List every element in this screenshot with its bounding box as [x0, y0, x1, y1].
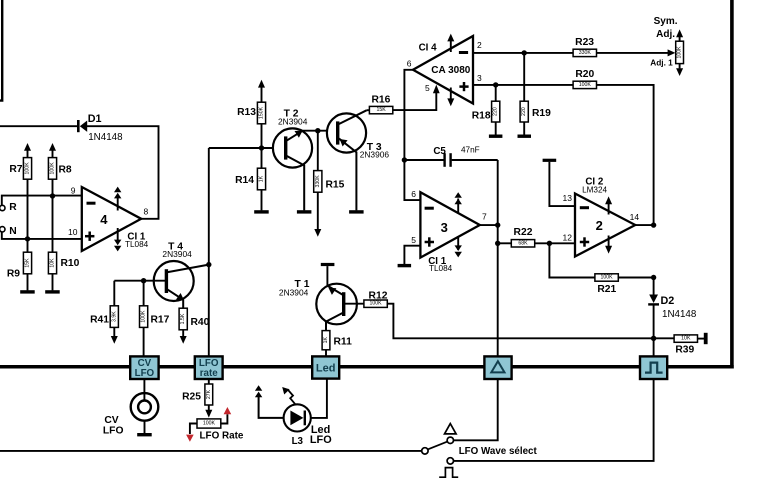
svg-text:LFO Rate: LFO Rate	[200, 430, 244, 441]
wire pot right to red arrow	[221, 414, 228, 423]
wire R40 down arrow	[182, 330, 184, 337]
svg-text:R9: R9	[7, 268, 20, 279]
op-amp U4 CI1 TL084 unit 4	[82, 187, 141, 251]
svg-text:13: 13	[563, 193, 573, 203]
svg-text:R7: R7	[9, 164, 22, 175]
svg-text:7: 7	[482, 212, 487, 222]
wire R10 to ground	[52, 274, 54, 291]
wire triangle box to switch top contact	[454, 379, 498, 440]
svg-text:2N3906: 2N3906	[360, 150, 390, 160]
wire Led box down to LED	[308, 379, 327, 418]
node junction R13/R14/base wire	[259, 145, 264, 150]
ground T3 emitter	[349, 210, 364, 213]
resistor R10	[48, 252, 56, 274]
wire thick LFO bus rail	[0, 365, 734, 369]
resistor R16	[367, 109, 370, 111]
node N input terminal	[0, 227, 5, 232]
triangle symbol above contact	[445, 424, 457, 434]
svg-text:R10: R10	[61, 258, 80, 269]
resistor R18	[495, 85, 497, 101]
svg-text:R25: R25	[182, 392, 201, 403]
power arrows op-amp U3	[457, 199, 459, 214]
wire R7 column down to N wire	[27, 179, 29, 252]
svg-text:R16: R16	[371, 95, 390, 106]
svg-text:R19: R19	[532, 108, 551, 119]
wire pin 2 rail	[473, 52, 573, 54]
svg-text:R: R	[9, 202, 17, 213]
ground CV jack	[137, 433, 152, 436]
square wave symbol below contact	[439, 468, 458, 478]
node junction R17 top	[141, 278, 146, 283]
node junction T2/T3/R15	[315, 128, 320, 133]
wire R21 to D2 column	[618, 277, 654, 279]
svg-text:330K: 330K	[315, 175, 321, 188]
svg-text:9: 9	[71, 185, 76, 195]
wire R17 to CV LFO box	[143, 327, 145, 356]
svg-text:8: 8	[144, 207, 149, 217]
resistor R9	[23, 252, 31, 274]
svg-text:6: 6	[407, 59, 412, 69]
node junction pin3/R18	[493, 82, 498, 87]
node square contact	[447, 458, 453, 464]
resistor R20	[573, 81, 596, 88]
wire R18 ground	[495, 122, 497, 135]
node junction D2/R39/square wire	[651, 336, 656, 341]
box triangle wave output	[484, 356, 511, 379]
svg-text:Led: Led	[316, 363, 336, 375]
svg-text:27K: 27K	[206, 389, 212, 399]
wire square contact to square box	[454, 379, 654, 461]
wire N terminal to op-amp pin 10	[2, 232, 82, 239]
wire jack to ground	[144, 421, 146, 434]
svg-text:1N4148: 1N4148	[88, 132, 123, 143]
ground R9	[20, 290, 35, 293]
resistor R41	[113, 281, 115, 306]
resistor R23	[573, 49, 596, 56]
resistor R14	[261, 148, 263, 168]
node triangle contact	[447, 437, 453, 443]
ground op3 pin 5	[398, 264, 412, 267]
svg-text:R21: R21	[597, 284, 616, 295]
svg-text:N: N	[9, 226, 16, 237]
power arrows CA3080	[450, 40, 452, 52]
node junction R7/N	[25, 236, 30, 241]
resistor R12	[344, 303, 365, 305]
resistor R17	[143, 281, 145, 306]
wire D2 to R39 junction	[653, 305, 655, 356]
svg-text:R17: R17	[151, 315, 170, 326]
node junction R21/D2	[651, 275, 656, 280]
node junction pin2/R19	[522, 50, 527, 55]
transistor T3 2N3906	[327, 113, 366, 152]
svg-text:3: 3	[477, 73, 482, 83]
wire R23 to Sym pot with wiper arrow	[597, 52, 669, 54]
svg-text:15K: 15K	[376, 107, 386, 113]
wire R15 down arrow	[317, 192, 319, 229]
svg-text:100K: 100K	[579, 82, 592, 88]
svg-text:100K: 100K	[677, 46, 683, 59]
node junction T4 collector	[206, 262, 211, 267]
led L3	[284, 404, 311, 431]
svg-text:R41: R41	[90, 315, 109, 326]
wire T4 base rail	[114, 280, 166, 282]
ground T2 emitter	[297, 210, 312, 213]
svg-text:R13: R13	[237, 107, 256, 118]
op-amp U2 CI2 LM324 unit 2	[575, 194, 635, 257]
wire op3 pin5 to ground	[404, 246, 420, 264]
wire R16 to CA3080 pin 5	[393, 92, 437, 111]
resistor R11	[322, 331, 330, 350]
wire bar to T1 collector	[326, 266, 328, 286]
svg-text:3: 3	[441, 220, 448, 235]
wire R terminal to op-amp pin 9	[2, 196, 82, 206]
transistor T1 2N3904	[316, 284, 357, 325]
box CV LFO	[130, 356, 158, 379]
wire CV LFO box to jack	[143, 379, 145, 401]
svg-text:1K: 1K	[259, 175, 265, 182]
svg-text:1.5K: 1.5K	[180, 313, 186, 324]
svg-text:2: 2	[477, 40, 482, 50]
ground R14	[254, 210, 269, 213]
resistor R8	[52, 149, 54, 158]
svg-text:10K: 10K	[50, 258, 56, 268]
rail bar above T1	[321, 263, 335, 266]
wire Sym pot bottom arrow	[679, 64, 681, 69]
wire pot left to red arrow	[190, 424, 197, 435]
svg-text:R20: R20	[575, 69, 594, 80]
wire R9 to ground	[27, 274, 29, 291]
wire op3 output to column	[480, 224, 498, 226]
wire R12 to bottom rail to D2 junction	[387, 304, 654, 339]
resistor R13	[261, 86, 263, 102]
svg-text:LFO: LFO	[135, 368, 155, 379]
transistor T4 2N3904	[154, 261, 194, 301]
svg-text:14: 14	[630, 212, 640, 222]
node junction R22 left	[495, 241, 500, 246]
svg-text:10: 10	[68, 227, 78, 237]
resistor R39	[654, 337, 674, 339]
wire R41 down arrow	[113, 327, 115, 336]
svg-text:R39: R39	[675, 344, 694, 355]
wire op3 output column x497	[497, 160, 499, 356]
potentiometer Sym Adj 100K	[676, 41, 684, 63]
svg-text:220: 220	[521, 107, 527, 116]
svg-text:5: 5	[411, 235, 416, 245]
svg-text:47nF: 47nF	[461, 146, 480, 155]
svg-text:Sym.: Sym.	[654, 16, 678, 27]
node junction op2 out/feedback	[651, 222, 656, 227]
svg-text:R18: R18	[472, 111, 491, 122]
svg-text:2N3904: 2N3904	[279, 287, 309, 297]
svg-text:LFO Wave sélect: LFO Wave sélect	[459, 446, 538, 457]
svg-text:2: 2	[596, 218, 603, 233]
led light arrows	[255, 385, 262, 391]
svg-text:CV: CV	[104, 415, 118, 426]
svg-text:2N3904: 2N3904	[278, 116, 308, 126]
jack CV LFO	[131, 393, 159, 421]
wire R20 to right feedback column	[597, 85, 654, 225]
svg-text:TL084: TL084	[125, 240, 149, 249]
wire top-left box corner	[0, 0, 2, 101]
resistor R7	[27, 149, 29, 158]
svg-text:5: 5	[425, 83, 430, 93]
svg-text:100K: 100K	[141, 310, 147, 323]
svg-text:100K: 100K	[370, 301, 383, 307]
svg-text:R40: R40	[191, 317, 210, 328]
ground R10	[45, 290, 60, 293]
svg-text:Adj. 1: Adj. 1	[650, 58, 673, 68]
wire R39 to terminal	[698, 338, 704, 340]
resistor R22	[498, 242, 512, 244]
svg-text:150K: 150K	[259, 106, 265, 119]
diode D2 1N4148	[653, 278, 655, 295]
potentiometer LFO Rate 100K	[197, 419, 221, 428]
svg-text:R15: R15	[326, 180, 345, 191]
node R input terminal	[0, 205, 5, 210]
svg-text:L3: L3	[292, 436, 304, 447]
svg-text:LM324: LM324	[582, 185, 607, 194]
diode D1 1N4148	[0, 125, 77, 127]
svg-text:rate: rate	[200, 368, 219, 379]
wire R13 to junction	[261, 124, 263, 148]
svg-text:CI 4: CI 4	[419, 43, 438, 54]
svg-text:LFO: LFO	[103, 426, 124, 437]
wire op2 output	[635, 224, 653, 226]
svg-text:15K: 15K	[25, 258, 31, 268]
wire CA3080 output down to op-amp 3	[404, 70, 420, 200]
node junction R8/R wire	[50, 193, 55, 198]
resistor R19	[523, 53, 525, 101]
wire R11 to Led box	[325, 350, 327, 357]
svg-text:10K: 10K	[681, 336, 691, 342]
led zigzag arrow	[287, 389, 295, 404]
svg-text:68K: 68K	[518, 240, 528, 246]
wire pin 3 rail	[473, 84, 573, 86]
svg-text:TL084: TL084	[429, 264, 453, 273]
svg-text:220: 220	[493, 107, 499, 116]
wire LFO rate box to R25	[208, 379, 210, 384]
svg-text:12: 12	[563, 233, 573, 243]
box LFO rate	[195, 356, 223, 379]
wire vertical x208 from base wire to LFO rate box	[208, 148, 210, 356]
box square wave output	[640, 356, 667, 379]
svg-text:R11: R11	[334, 336, 353, 347]
svg-text:D1: D1	[88, 113, 102, 125]
svg-text:6: 6	[411, 189, 416, 199]
node junction C5 tap	[402, 157, 407, 162]
node junction op3 out	[495, 222, 500, 227]
svg-text:3.9K: 3.9K	[111, 311, 117, 322]
box Led	[312, 356, 339, 378]
capacitor C5 47nF	[404, 159, 443, 161]
wire R22 to op2 pin 12	[535, 242, 575, 244]
rail bar above op2 pin 13	[543, 159, 557, 162]
node junction R22/pin12/R21	[547, 241, 552, 246]
resistor R25	[205, 384, 213, 405]
resistor R15	[317, 131, 319, 171]
svg-text:100K: 100K	[601, 275, 614, 281]
svg-text:R8: R8	[59, 165, 72, 176]
wire T2 collector to T3 base	[301, 130, 338, 132]
wire R25 wiper arrow to pot	[208, 405, 210, 411]
svg-text:D2: D2	[661, 295, 675, 307]
svg-text:100K: 100K	[50, 162, 56, 175]
svg-text:R23: R23	[575, 37, 594, 48]
transistor T2 2N3904	[273, 128, 312, 167]
op-amp U5 CI4 CA3080	[413, 36, 473, 104]
svg-text:CA 3080: CA 3080	[431, 65, 471, 76]
resistor R40	[179, 308, 187, 330]
svg-text:R12: R12	[369, 291, 388, 302]
switch LFO Wave select	[422, 448, 428, 454]
wire D1 to op-amp 4 output	[87, 126, 159, 219]
svg-text:LFO: LFO	[310, 434, 332, 446]
wire base rail to T2	[209, 147, 286, 149]
svg-text:1N4148: 1N4148	[662, 309, 697, 320]
svg-text:R14: R14	[235, 175, 254, 186]
wire Sym pot top arrow	[679, 37, 681, 41]
resistor R21	[595, 274, 618, 281]
svg-text:2N3904: 2N3904	[162, 249, 192, 259]
wire R8 column down to R10	[52, 179, 54, 252]
svg-text:100K: 100K	[25, 162, 31, 175]
op-amp U3 CI1 TL084 unit 3	[420, 192, 479, 257]
svg-text:Adj.: Adj.	[656, 29, 675, 40]
svg-text:R22: R22	[514, 227, 533, 238]
svg-text:4: 4	[100, 212, 108, 227]
power arrows op-amp U2	[608, 203, 610, 215]
wire bottom switch common rail	[0, 450, 422, 452]
wire R19 ground	[523, 122, 525, 135]
wire bar to op2 pin 13	[549, 162, 575, 206]
power arrows op-amp U4	[117, 197, 119, 211]
svg-text:1K: 1K	[323, 336, 329, 343]
svg-text:C5: C5	[433, 146, 446, 157]
svg-text:330K: 330K	[579, 50, 592, 56]
svg-text:100K: 100K	[203, 421, 216, 427]
wire R14 to ground	[261, 190, 263, 211]
wire pin12 junction down to R21	[549, 243, 595, 277]
wire thick right border	[730, 0, 734, 369]
